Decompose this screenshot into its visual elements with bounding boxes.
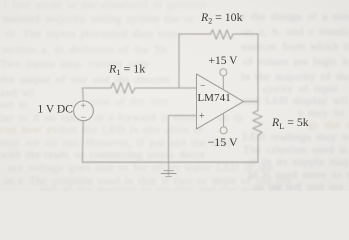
op-amp supply terminal circle top — [220, 69, 227, 76]
wire top rail right segment — [233, 33, 258, 35]
wire top rail left segment — [179, 33, 211, 35]
svg-text:−: − — [200, 81, 206, 92]
op-amp supply stub -15V — [223, 113, 225, 127]
wire RL to bottom rail — [257, 136, 259, 163]
wire source top to R1 — [82, 88, 111, 101]
resistor RL — [253, 111, 262, 136]
svg-text:R2 = 10k: R2 = 10k — [200, 10, 243, 26]
op-amp U1 triangle — [197, 74, 244, 129]
svg-text:1 V DC: 1 V DC — [38, 103, 74, 115]
svg-text:+: + — [199, 111, 205, 122]
wire feedback left vertical — [178, 34, 180, 88]
svg-text:−15 V: −15 V — [208, 135, 239, 149]
ground — [161, 171, 177, 177]
voltage source V1 circle — [74, 101, 94, 121]
svg-text:RL = 5k: RL = 5k — [271, 115, 309, 131]
svg-text:+15 V: +15 V — [209, 55, 239, 67]
voltage source plus sign — [81, 103, 86, 107]
resistor R2 — [211, 30, 233, 39]
op-amp supply stub +15V — [222, 76, 224, 91]
op-amp supply terminal circle bottom — [220, 127, 227, 134]
wire R1 to op-amp inverting input — [135, 87, 197, 89]
background bleed-through text (decorative) — [4, 0, 207, 11]
voltage source minus sign — [81, 116, 86, 118]
wire feedback right vertical — [257, 34, 259, 102]
wire bottom rail — [82, 161, 258, 163]
svg-text:R1 = 1k: R1 = 1k — [108, 61, 145, 77]
wire output node to RL — [257, 102, 259, 111]
wire op-amp noninverting input to ground stem — [169, 116, 197, 176]
wire source bottom — [81, 121, 84, 163]
resistor R1 — [111, 83, 135, 93]
svg-text:LM741: LM741 — [198, 92, 231, 104]
wire op-amp output — [244, 101, 259, 103]
